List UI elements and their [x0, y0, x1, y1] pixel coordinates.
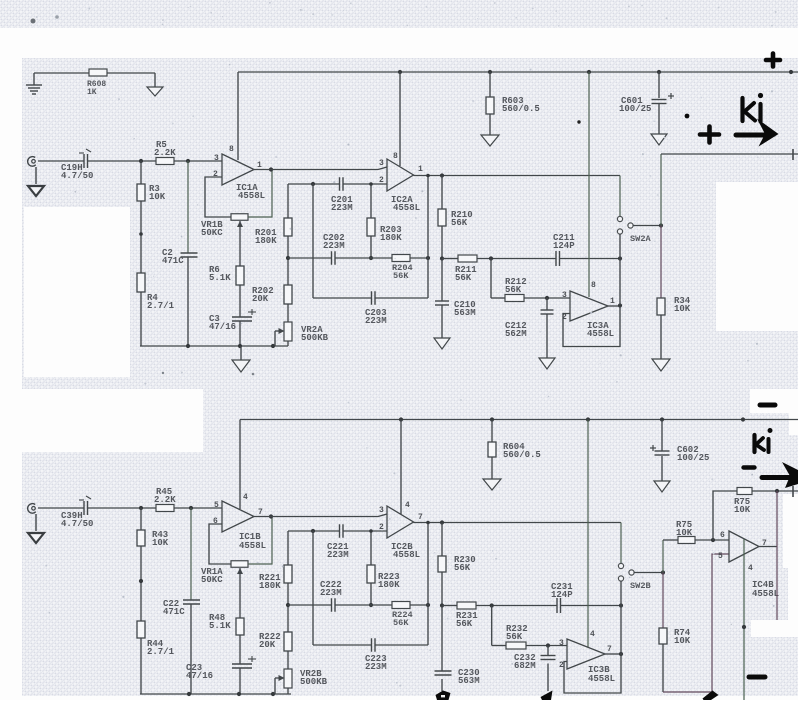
svg-text:10K: 10K [149, 192, 166, 202]
svg-text:124P: 124P [551, 590, 573, 600]
svg-text:56K: 56K [393, 618, 409, 628]
svg-text:7: 7 [607, 645, 612, 654]
svg-text:2: 2 [379, 176, 384, 185]
svg-text:180K: 180K [380, 233, 402, 243]
svg-text:2.2K: 2.2K [154, 495, 176, 505]
svg-text:3: 3 [562, 291, 567, 300]
svg-text:10K: 10K [734, 505, 751, 515]
svg-text:1: 1 [257, 161, 262, 170]
svg-text:4558L: 4558L [393, 550, 420, 560]
svg-text:4558L: 4558L [239, 541, 266, 551]
svg-text:56K: 56K [456, 619, 473, 629]
svg-text:5: 5 [214, 501, 219, 510]
svg-text:56K: 56K [451, 218, 468, 228]
svg-text:682M: 682M [514, 661, 536, 671]
svg-text:56K: 56K [454, 563, 471, 573]
svg-text:56K: 56K [505, 285, 522, 295]
svg-text:10K: 10K [674, 304, 691, 314]
svg-text:10K: 10K [676, 528, 693, 538]
svg-text:471C: 471C [162, 256, 184, 266]
svg-text:5: 5 [718, 552, 723, 561]
svg-text:3: 3 [214, 154, 219, 163]
svg-text:8: 8 [393, 152, 398, 161]
svg-text:4558L: 4558L [238, 191, 265, 201]
svg-text:4558L: 4558L [393, 203, 420, 213]
svg-text:7: 7 [418, 513, 423, 522]
svg-text:3: 3 [559, 639, 564, 648]
svg-text:223M: 223M [323, 241, 345, 251]
svg-text:180K: 180K [255, 236, 277, 246]
svg-text:4: 4 [243, 493, 248, 502]
svg-text:3: 3 [379, 159, 384, 168]
svg-text:223M: 223M [320, 588, 342, 598]
svg-text:10K: 10K [674, 636, 691, 646]
svg-text:4558L: 4558L [587, 329, 614, 339]
svg-text:4: 4 [405, 501, 410, 510]
svg-text:5.1K: 5.1K [209, 621, 231, 631]
svg-text:47/16: 47/16 [186, 671, 213, 681]
svg-text:1K: 1K [87, 88, 97, 97]
svg-text:4: 4 [590, 630, 595, 639]
svg-text:50KC: 50KC [201, 575, 223, 585]
svg-text:56K: 56K [393, 271, 409, 281]
svg-text:7: 7 [258, 508, 263, 517]
svg-text:1: 1 [610, 297, 615, 306]
svg-text:20K: 20K [252, 294, 269, 304]
svg-text:5.1K: 5.1K [209, 273, 231, 283]
svg-text:4558L: 4558L [752, 589, 779, 599]
svg-text:100/25: 100/25 [677, 453, 709, 463]
svg-text:223M: 223M [365, 662, 387, 672]
svg-text:10K: 10K [152, 538, 169, 548]
svg-text:20K: 20K [259, 640, 276, 650]
svg-text:56K: 56K [506, 632, 523, 642]
svg-text:2.2K: 2.2K [154, 148, 176, 158]
svg-text:3: 3 [379, 506, 384, 515]
svg-text:2: 2 [559, 661, 564, 670]
svg-text:56K: 56K [455, 273, 472, 283]
svg-text:2.7/1: 2.7/1 [147, 647, 175, 657]
svg-text:47/16: 47/16 [209, 322, 236, 332]
svg-text:223M: 223M [331, 203, 353, 213]
svg-text:2: 2 [379, 523, 384, 532]
svg-text:560/0.5: 560/0.5 [502, 104, 540, 114]
svg-text:6: 6 [720, 531, 725, 540]
svg-text:563M: 563M [458, 676, 480, 686]
svg-text:8: 8 [591, 281, 596, 290]
svg-text:124P: 124P [553, 241, 575, 251]
svg-text:50KC: 50KC [201, 228, 223, 238]
svg-text:4.7/50: 4.7/50 [61, 519, 93, 529]
svg-text:4558L: 4558L [588, 674, 615, 684]
svg-text:500KB: 500KB [301, 333, 329, 343]
svg-text:100/25: 100/25 [619, 104, 651, 114]
svg-text:563M: 563M [454, 308, 476, 318]
svg-text:SW2B: SW2B [630, 581, 651, 591]
svg-text:SW2A: SW2A [630, 234, 651, 244]
svg-text:180K: 180K [259, 581, 281, 591]
svg-text:560/0.5: 560/0.5 [503, 450, 541, 460]
svg-text:562M: 562M [505, 329, 527, 339]
svg-text:4.7/50: 4.7/50 [61, 171, 93, 181]
svg-text:2.7/1: 2.7/1 [147, 301, 175, 311]
svg-text:4: 4 [748, 564, 753, 573]
svg-text:223M: 223M [365, 316, 387, 326]
svg-text:1: 1 [418, 165, 423, 174]
svg-text:471C: 471C [163, 607, 185, 617]
svg-text:180K: 180K [378, 580, 400, 590]
svg-text:500KB: 500KB [300, 677, 328, 687]
svg-text:223M: 223M [327, 550, 349, 560]
svg-text:8: 8 [229, 145, 234, 154]
